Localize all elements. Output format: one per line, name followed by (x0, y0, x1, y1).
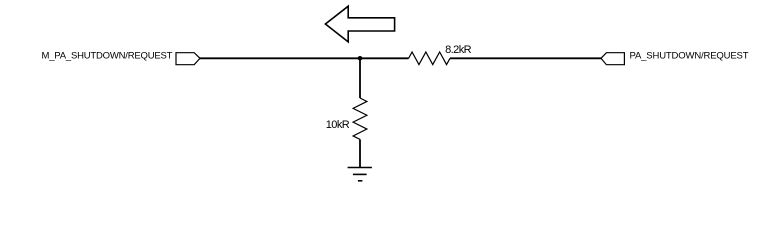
port PA_SHUTDOWN/REQUEST (pentagon symbol) (601, 53, 624, 65)
wire: node A to resistor 8.2kR (360, 57, 409, 59)
resistor R2 10kR (vertical zigzag) (353, 98, 367, 139)
resistor R1 8.2kR (horizontal zigzag) (409, 52, 450, 65)
wire: resistor 8.2kR to right port (450, 57, 601, 59)
wire: left port to node A (200, 57, 360, 59)
svg-text:PA_SHUTDOWN/REQUEST: PA_SHUTDOWN/REQUEST (630, 50, 749, 61)
svg-text:M_PA_SHUTDOWN/REQUEST: M_PA_SHUTDOWN/REQUEST (42, 50, 173, 61)
svg-text:10kR: 10kR (326, 119, 350, 131)
svg-text:8.2kR: 8.2kR (445, 44, 472, 56)
direction arrow (left-pointing block arrow) (325, 6, 394, 42)
junction node A (358, 56, 363, 61)
port M_PA_SHUTDOWN/REQUEST (pentagon symbol) (176, 53, 200, 65)
ground symbol (348, 168, 372, 181)
wire: resistor 10kR to ground (359, 139, 361, 167)
wire: node A down to resistor 10kR (359, 58, 361, 98)
